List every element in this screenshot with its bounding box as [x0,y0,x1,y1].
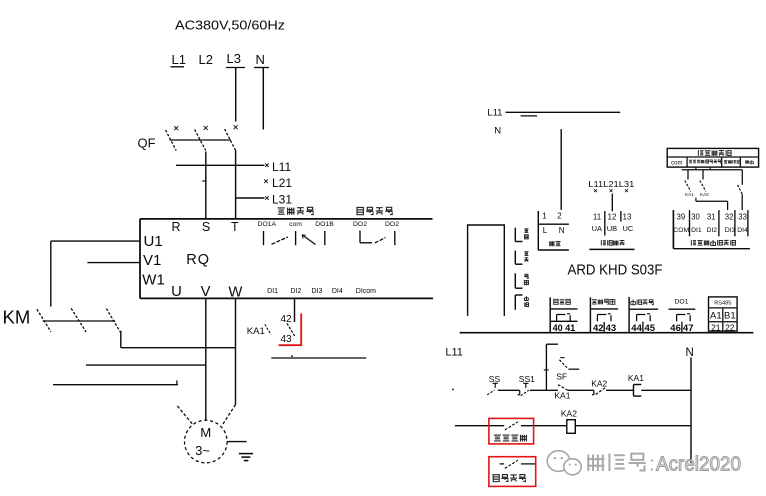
svg-text:com: com [289,221,302,228]
wire to terminal 2 [560,129,562,210]
svg-text:L11L21L31: L11L21L31 [588,180,634,189]
wire [498,389,520,391]
DI bracket 3 [514,273,516,288]
svg-text:KA1: KA1 [628,373,644,383]
svg-text:DI2: DI2 [707,227,718,234]
wire [530,389,558,391]
tap wire L11 [176,164,265,166]
svg-text:W: W [228,284,242,300]
pushbutton SF [560,357,564,359]
aux contact a [687,170,689,180]
DO2 right stub [394,231,396,245]
svg-text:L21: L21 [272,176,292,190]
svg-text:N: N [686,347,694,359]
svg-text:SF: SF [556,371,567,381]
label switch signal input [691,240,696,245]
wire DI2 down [294,298,296,322]
ARD bottom rail [460,332,754,334]
svg-text:47: 47 [683,323,694,334]
QF pole 3 [234,125,238,129]
svg-text:U1: U1 [144,233,163,250]
wire [568,389,594,391]
svg-text:RS485: RS485 [714,301,731,307]
svg-text:2: 2 [557,212,562,221]
svg-text:L: L [543,226,548,235]
QF pole 2 [204,126,208,130]
wire S phase QF to RQ [205,152,207,219]
stray dot [452,389,454,391]
svg-text:41: 41 [565,323,575,333]
label bypass output [357,207,363,214]
DO2 stub L-wire [359,231,361,243]
bypass wire to U [53,384,178,386]
switch input box [667,148,758,167]
KM pole3 output wire [120,331,122,348]
svg-text:33: 33 [738,213,747,222]
DO1A stub [263,231,265,245]
svg-text:DO1: DO1 [675,299,689,306]
svg-text:40: 40 [553,323,563,333]
DI bracket 4 [515,294,522,296]
svg-text:R: R [171,220,180,234]
svg-text:11: 11 [593,212,602,221]
wire W down [235,298,237,404]
svg-text:U: U [171,284,182,300]
KM pole 3 [106,309,120,332]
soft starter RQ box [140,218,433,220]
svg-text:43: 43 [606,323,617,334]
watermark wechat icon [547,451,570,472]
wire segment below KA1 [271,357,366,359]
svg-text:DI1: DI1 [267,288,278,295]
svg-text::: : [649,453,655,476]
svg-text:KA2: KA2 [561,408,577,418]
svg-text:com: com [671,160,682,166]
RS485 block A1 B1 21 22 [709,297,738,331]
svg-text:SS1: SS1 [519,374,535,384]
svg-text:DI2: DI2 [291,288,302,295]
svg-text:31: 31 [707,213,716,222]
svg-text:DO1A: DO1A [258,221,277,228]
wire T phase QF to RQ [235,151,237,219]
contact KA2 [593,390,595,394]
DO1 contact blade [272,237,289,244]
svg-text:KA1: KA1 [685,192,694,197]
watermark text [587,454,605,471]
KM pole 1 [37,309,51,332]
svg-text:A1: A1 [710,311,722,322]
svg-text:KA2: KA2 [700,192,709,197]
svg-text:L3: L3 [227,51,241,66]
DI terminal block 29-33 [672,210,674,249]
wire U diagonal to motor [177,406,192,424]
motor earth wire [227,441,247,443]
svg-text:L11: L11 [272,160,291,174]
svg-text:KA1: KA1 [247,326,265,337]
N wire [690,358,692,464]
com stub [295,231,297,245]
label power [549,241,554,246]
svg-text:V: V [201,284,211,300]
svg-text:RQ: RQ [186,252,210,268]
DO2 contact blade [375,238,386,243]
svg-text:QF: QF [138,136,156,151]
svg-text:21: 21 [711,322,721,332]
svg-text:42: 42 [281,314,293,325]
svg-text:45: 45 [645,323,656,334]
wire V1 [87,262,140,264]
KM linkage [43,320,116,322]
red box bypass output [489,457,536,487]
svg-text:N: N [256,52,265,67]
svg-text:DIcom: DIcom [356,288,376,295]
ARD housing outline [468,225,505,316]
svg-text:ARD KHD S03F: ARD KHD S03F [568,263,663,279]
svg-text:T: T [231,220,239,234]
svg-text:43: 43 [281,334,293,345]
svg-text:DI1: DI1 [691,227,702,234]
svg-text:30: 30 [691,213,700,222]
wire U1 to KM [51,240,140,242]
rung 3 bypass contact [500,463,505,465]
svg-text:DI4: DI4 [332,288,343,295]
seal-in contact KA1 [558,385,568,391]
svg-text:M: M [200,425,211,440]
label voltage [601,240,606,245]
wire N down [262,68,264,130]
svg-text:S: S [202,220,210,234]
svg-text:1: 1 [542,212,547,221]
svg-text:32: 32 [725,213,734,222]
tap L21 [202,180,206,182]
svg-text:N: N [559,226,565,235]
svg-text:13: 13 [623,212,632,221]
output group 42 43 fault reset [589,297,591,332]
rung 2 wire [455,425,504,427]
wire V to motor [205,298,207,420]
svg-text:B1: B1 [724,311,736,322]
red box softstart fault [489,418,534,444]
ARD power terminals 1 2 [537,211,539,250]
wire [606,389,634,391]
svg-text:39: 39 [677,213,686,222]
svg-text:L1: L1 [172,52,186,67]
svg-text:DI4: DI4 [737,227,748,234]
svg-text:W1: W1 [142,272,165,289]
svg-text:DI3: DI3 [312,288,323,295]
output group 44 45 run output [628,297,630,333]
wire to N [641,389,691,391]
svg-text:L11: L11 [445,347,463,359]
aux contact c to DI4 [741,170,743,185]
svg-text:12: 12 [608,212,617,221]
svg-text:DO2: DO2 [385,221,399,228]
svg-text:44: 44 [631,323,642,334]
wire to terminal 12 [611,194,613,212]
label fault output [278,208,285,214]
wire below box [682,169,743,171]
svg-text:22: 22 [725,322,735,332]
softstart fault contact [505,422,518,430]
motor M 3~ [185,420,228,463]
svg-text:42: 42 [593,323,604,334]
svg-text:N: N [494,125,501,136]
aux contact b [702,170,704,180]
svg-text:KA1: KA1 [554,391,570,401]
bypass wire to V [86,364,206,366]
svg-text:AC380V,50/60Hz: AC380V,50/60Hz [175,18,285,33]
svg-text:UB: UB [607,224,617,233]
red highlight bracket [300,313,302,345]
svg-text:L11: L11 [487,107,502,118]
svg-text:DI3: DI3 [725,227,736,234]
svg-text:KA2: KA2 [591,378,607,388]
DI bracket 1 [514,228,516,242]
svg-text:DO1B: DO1B [315,221,334,228]
QF linkage bar [170,139,232,141]
DO1B stub [324,231,326,245]
DO1 changeover arrow [302,235,316,245]
svg-text:Acrel2020: Acrel2020 [656,453,741,476]
dividers [604,211,606,236]
DI bracket 2 [514,251,516,265]
QF pole 1 [174,126,178,130]
SF branch riser [545,344,547,390]
KM pole 2 [71,308,86,332]
svg-text:L2: L2 [199,52,213,67]
svg-text:V1: V1 [143,252,161,269]
svg-text:46: 46 [670,323,681,334]
ground [239,453,253,455]
svg-text:UC: UC [622,224,633,233]
svg-text:L31: L31 [272,193,292,207]
tap wire L31 [236,197,265,199]
wire L3 down to QF [235,68,237,122]
output group 40 41 [549,297,551,332]
svg-text:DO2: DO2 [353,221,367,228]
wire W diagonal to motor [222,405,235,425]
svg-text:COM: COM [673,227,689,234]
wire to DI3 [696,200,728,202]
svg-text:KM: KM [3,307,31,328]
svg-text:3~: 3~ [195,443,210,458]
svg-text:UA: UA [592,224,602,233]
svg-text:SS: SS [489,374,501,384]
